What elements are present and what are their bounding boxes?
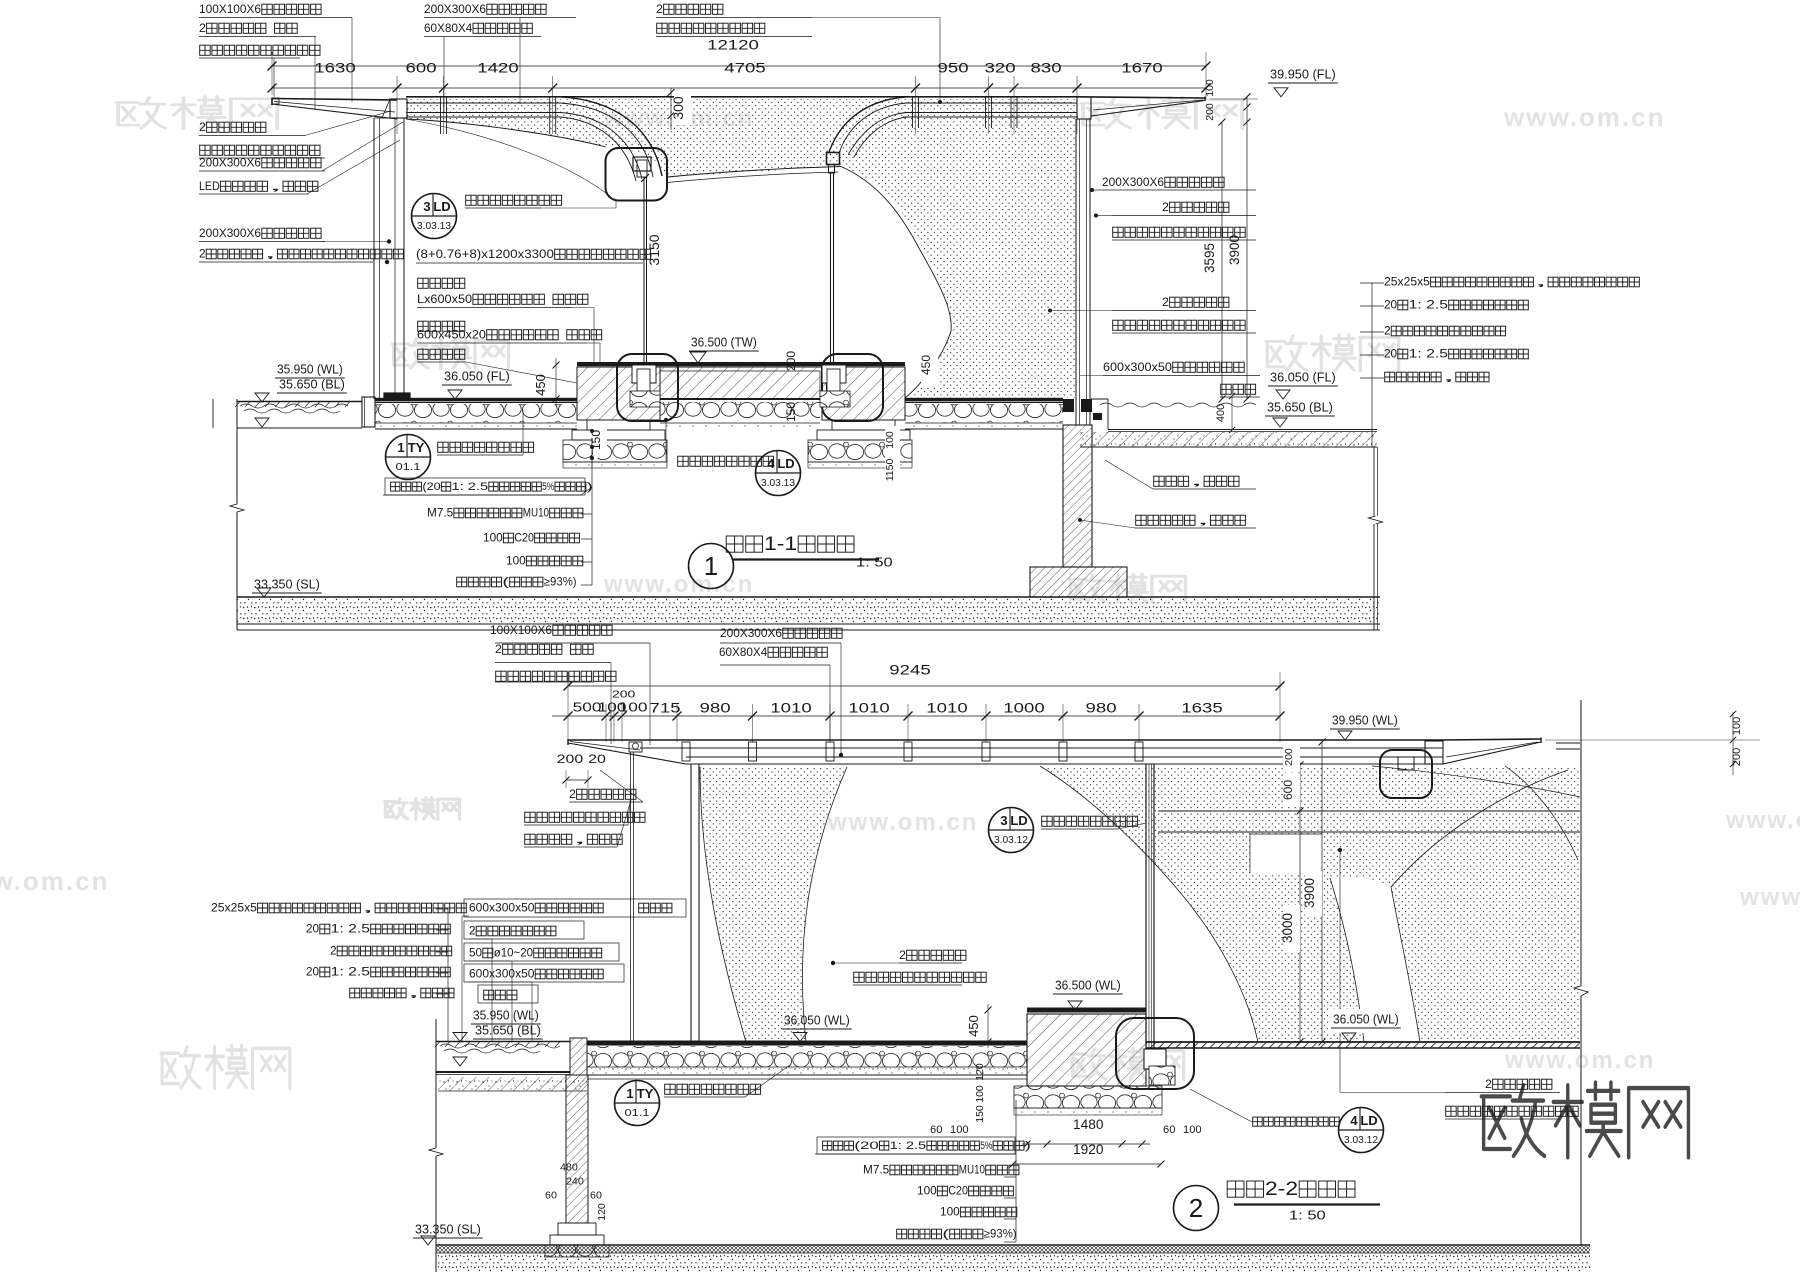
svg-text:MU10: MU10 <box>523 507 549 520</box>
svg-text:200X300X6: 200X300X6 <box>199 226 261 240</box>
svg-text:100: 100 <box>1183 1124 1202 1136</box>
svg-text:1635: 1635 <box>1181 700 1223 716</box>
svg-text:200: 200 <box>1283 748 1295 766</box>
svg-text:1630: 1630 <box>314 60 356 76</box>
svg-text:39.950 (FL): 39.950 (FL) <box>1270 67 1336 82</box>
svg-text:1920: 1920 <box>1073 1142 1104 1157</box>
svg-text:2: 2 <box>330 945 337 958</box>
svg-text:100: 100 <box>506 555 526 568</box>
section 1-1: glass panel 2 <box>830 173 832 377</box>
svg-text:100X100X6: 100X100X6 <box>490 623 552 637</box>
svg-text:≥93%): ≥93%) <box>984 1228 1017 1241</box>
svg-text:100: 100 <box>1204 79 1216 97</box>
svg-text:980: 980 <box>700 700 731 716</box>
svg-text:2: 2 <box>1162 295 1169 309</box>
svg-text:60: 60 <box>545 1190 557 1202</box>
svg-text:1: 2.5: 1: 2.5 <box>1409 348 1448 361</box>
svg-text:3.03.12: 3.03.12 <box>994 835 1028 846</box>
svg-text:2: 2 <box>199 21 206 35</box>
svg-text:01.1: 01.1 <box>396 462 421 473</box>
svg-text:320: 320 <box>985 60 1016 76</box>
svg-text:3595: 3595 <box>1202 243 1217 273</box>
section 2-2: roof band <box>568 739 1440 741</box>
svg-text:450: 450 <box>533 374 548 396</box>
svg-text:,: , <box>1442 371 1455 384</box>
svg-text:2: 2 <box>1189 1193 1203 1223</box>
svg-text:www.om.cn: www.om.cn <box>1503 102 1666 132</box>
svg-text:36.050 (WL): 36.050 (WL) <box>784 1013 850 1028</box>
svg-text:20: 20 <box>1384 348 1397 361</box>
svg-text:1480: 1480 <box>1073 1117 1104 1132</box>
svg-text:35.950 (WL): 35.950 (WL) <box>473 1008 539 1023</box>
svg-text:LD: LD <box>433 199 450 214</box>
svg-text:60: 60 <box>590 1190 602 1202</box>
svg-text:200X300X6: 200X300X6 <box>424 2 486 16</box>
svg-text:1150: 1150 <box>884 459 896 482</box>
svg-text:100: 100 <box>884 431 896 449</box>
svg-text:(20: (20 <box>854 1140 878 1152</box>
svg-text:3.03.12: 3.03.12 <box>1344 1135 1378 1146</box>
svg-text:C20: C20 <box>514 532 534 545</box>
svg-text:,: , <box>264 248 277 261</box>
section 2-2: left column <box>690 764 692 1042</box>
svg-text:TY: TY <box>408 440 425 455</box>
svg-text:,: , <box>361 902 374 915</box>
svg-text:1-1: 1-1 <box>764 533 797 555</box>
svg-text:3000: 3000 <box>1280 913 1295 943</box>
svg-text:1010: 1010 <box>926 700 968 716</box>
svg-text:33.350 (SL): 33.350 (SL) <box>415 1222 481 1237</box>
section 1-1: roof slab stipple <box>406 99 1076 398</box>
svg-text:200X300X6: 200X300X6 <box>199 156 261 170</box>
svg-text:1: 2.5: 1: 2.5 <box>331 966 370 979</box>
svg-text:400: 400 <box>1215 404 1227 422</box>
svg-text:1: 1 <box>397 440 404 455</box>
svg-text:,: , <box>407 987 420 1000</box>
svg-text:2: 2 <box>199 248 206 261</box>
svg-text:1: 2.5: 1: 2.5 <box>331 923 370 936</box>
svg-text:1000: 1000 <box>1003 700 1045 716</box>
svg-text:36.050 (FL): 36.050 (FL) <box>1270 370 1336 385</box>
svg-text:60X80X4: 60X80X4 <box>424 21 473 35</box>
section 1-1: wall stem and footing <box>1063 425 1092 567</box>
svg-text:,: , <box>269 179 283 193</box>
svg-text:200: 200 <box>612 689 635 701</box>
svg-text:www.om.cn: www.om.cn <box>1504 1047 1655 1074</box>
svg-text:2: 2 <box>1384 325 1391 338</box>
svg-text:2: 2 <box>1485 1077 1492 1091</box>
svg-text:50: 50 <box>469 947 482 960</box>
svg-text:4: 4 <box>1350 1113 1358 1128</box>
svg-text:36.050 (FL): 36.050 (FL) <box>444 369 510 384</box>
svg-text:LD: LD <box>777 456 794 471</box>
svg-text:950: 950 <box>938 60 969 76</box>
svg-text:35.650 (BL): 35.650 (BL) <box>279 377 345 392</box>
svg-text:,: , <box>1196 513 1210 527</box>
section 1-1: glass fixing detail bubble <box>606 148 668 201</box>
svg-text:36.050 (WL): 36.050 (WL) <box>1333 1012 1399 1027</box>
svg-text:,: , <box>1534 276 1547 289</box>
svg-text:1: 2.5: 1: 2.5 <box>452 481 489 493</box>
svg-text:9245: 9245 <box>889 662 931 678</box>
svg-text:M7.5: M7.5 <box>427 507 453 520</box>
section 1-1: deep ground band <box>237 596 1380 598</box>
svg-text:120: 120 <box>596 1203 608 1221</box>
svg-text:3150: 3150 <box>646 234 662 265</box>
svg-text:35.650 (BL): 35.650 (BL) <box>475 1023 541 1038</box>
svg-text:25x25x5: 25x25x5 <box>1384 276 1430 289</box>
svg-text:100: 100 <box>950 1124 969 1136</box>
svg-text:M7.5: M7.5 <box>863 1164 889 1177</box>
svg-text:1: 1 <box>626 1086 633 1101</box>
svg-text:1010: 1010 <box>848 700 890 716</box>
svg-text:600: 600 <box>406 60 437 76</box>
svg-text:(8+0.76+8)x1200x3300: (8+0.76+8)x1200x3300 <box>416 247 554 261</box>
svg-text:LD: LD <box>1360 1113 1377 1128</box>
svg-text:20: 20 <box>306 966 319 979</box>
svg-text:20: 20 <box>306 923 319 936</box>
svg-text:4: 4 <box>767 456 775 471</box>
svg-text:Lx600x50: Lx600x50 <box>417 292 472 306</box>
svg-text:1: 50: 1: 50 <box>1289 1208 1326 1223</box>
svg-text:39.950 (WL): 39.950 (WL) <box>1332 713 1398 728</box>
svg-text:1: 50: 1: 50 <box>856 555 893 570</box>
svg-text:100: 100 <box>598 700 627 715</box>
svg-text:2: 2 <box>469 925 476 938</box>
section 1-1: left pool and ground <box>237 401 362 403</box>
svg-text:www.om.cn: www.om.cn <box>1739 884 1800 911</box>
svg-text:1670: 1670 <box>1121 60 1163 76</box>
svg-text:20: 20 <box>1384 299 1397 312</box>
section 2-2: dimension rows <box>568 685 1280 687</box>
svg-text:300: 300 <box>670 96 686 120</box>
svg-text:12120: 12120 <box>707 37 759 53</box>
svg-text:5%: 5% <box>542 481 555 493</box>
section 1-1: glass panel 1 <box>643 177 645 372</box>
svg-text:≥93%): ≥93%) <box>544 576 577 589</box>
svg-text:100: 100 <box>940 1206 960 1219</box>
section 1-1: right curved hump <box>829 97 907 152</box>
svg-text:5%: 5% <box>980 1140 993 1152</box>
svg-text:200X300X6: 200X300X6 <box>720 626 782 640</box>
svg-text:100X100X6: 100X100X6 <box>199 2 261 16</box>
svg-text:100: 100 <box>974 1085 986 1103</box>
section 1-1: right planter <box>1108 429 1377 431</box>
section 1-1: left wing roof <box>272 99 397 101</box>
svg-text:2: 2 <box>1162 200 1169 214</box>
svg-text:,: , <box>573 832 587 846</box>
svg-text:www.om.cn: www.om.cn <box>0 866 110 896</box>
svg-text:120: 120 <box>974 1063 986 1081</box>
svg-text:www.om.cn: www.om.cn <box>827 809 978 836</box>
svg-text:480: 480 <box>560 1162 578 1174</box>
svg-text:TY: TY <box>637 1086 654 1101</box>
section 2-2: pool and pavement <box>436 1041 570 1043</box>
svg-text:150: 150 <box>784 402 798 422</box>
section 1-1: raised upstand and foundations <box>577 362 905 366</box>
section 2-2: deep ground band <box>436 1244 1590 1246</box>
svg-text:2: 2 <box>656 2 663 16</box>
svg-text:60: 60 <box>930 1124 942 1136</box>
svg-text:): ) <box>1025 1140 1031 1152</box>
svg-text:www.om.cn: www.om.cn <box>1725 807 1800 834</box>
svg-text:3.03.13: 3.03.13 <box>417 221 451 232</box>
svg-text:MU10: MU10 <box>959 1164 985 1177</box>
svg-text:100: 100 <box>917 1185 937 1198</box>
section 1-1: left column and gutter <box>390 99 407 118</box>
svg-text:600x300x50: 600x300x50 <box>469 902 535 915</box>
watermark: large logo <box>1481 1083 1688 1158</box>
svg-text:20: 20 <box>588 752 606 766</box>
svg-text:600x300x50: 600x300x50 <box>469 968 535 981</box>
svg-text:36.500 (TW): 36.500 (TW) <box>691 335 757 350</box>
svg-text:980: 980 <box>1086 700 1117 716</box>
svg-text:(: ( <box>502 576 509 589</box>
svg-text:715: 715 <box>650 700 681 716</box>
svg-text:450: 450 <box>966 1015 981 1037</box>
svg-text:C20: C20 <box>948 1185 968 1198</box>
svg-text:450: 450 <box>919 355 933 375</box>
svg-text:35.950 (WL): 35.950 (WL) <box>277 362 343 377</box>
svg-text:36.500 (WL): 36.500 (WL) <box>1055 978 1121 993</box>
svg-text:LED: LED <box>199 179 220 193</box>
svg-text:LD: LD <box>1010 813 1027 828</box>
svg-text:1010: 1010 <box>770 700 812 716</box>
svg-text:3.03.13: 3.03.13 <box>761 478 795 489</box>
svg-text:ø10~20: ø10~20 <box>494 947 533 960</box>
section 1-1: dimension rows <box>272 65 1206 67</box>
svg-text:200: 200 <box>1204 103 1216 121</box>
svg-text:(: ( <box>942 1228 949 1241</box>
svg-text:(20: (20 <box>422 481 440 493</box>
svg-text:3: 3 <box>1000 813 1007 828</box>
svg-text:3900: 3900 <box>1302 878 1317 908</box>
svg-text:25x25x5: 25x25x5 <box>211 902 257 915</box>
svg-text:60: 60 <box>1163 1124 1175 1136</box>
svg-text:200: 200 <box>784 351 798 371</box>
svg-text:2: 2 <box>899 948 906 962</box>
svg-text:3: 3 <box>423 199 430 214</box>
svg-text:2: 2 <box>495 642 502 656</box>
svg-text:2-2: 2-2 <box>1265 1178 1298 1200</box>
svg-text:1: 2.5: 1: 2.5 <box>1409 299 1448 312</box>
section 1-1: left curved hump <box>560 97 662 176</box>
svg-text:,: , <box>1190 474 1204 488</box>
svg-text:600: 600 <box>1281 780 1295 800</box>
svg-text:200: 200 <box>557 752 584 766</box>
svg-text:1: 2.5: 1: 2.5 <box>890 1140 927 1152</box>
svg-text:1: 1 <box>704 551 718 581</box>
svg-text:4705: 4705 <box>724 60 766 76</box>
svg-text:3900: 3900 <box>1227 235 1242 265</box>
svg-text:60X80X4: 60X80X4 <box>719 645 768 659</box>
section 2-2: center planter <box>1027 1014 1146 1086</box>
svg-text:830: 830 <box>1031 60 1062 76</box>
svg-text:2: 2 <box>199 120 206 134</box>
svg-text:600x300x50: 600x300x50 <box>1103 360 1172 374</box>
svg-text:200X300X6: 200X300X6 <box>1102 175 1164 189</box>
svg-text:1420: 1420 <box>477 60 519 76</box>
svg-text:600x450x20: 600x450x20 <box>417 328 486 342</box>
svg-text:240: 240 <box>566 1176 584 1188</box>
svg-text:150: 150 <box>974 1105 986 1123</box>
svg-text:01.1: 01.1 <box>625 1108 650 1119</box>
svg-text:100: 100 <box>483 532 503 545</box>
svg-text:2: 2 <box>569 787 576 801</box>
svg-text:35.650 (BL): 35.650 (BL) <box>1267 400 1333 415</box>
svg-text:33.350 (SL): 33.350 (SL) <box>254 577 320 592</box>
